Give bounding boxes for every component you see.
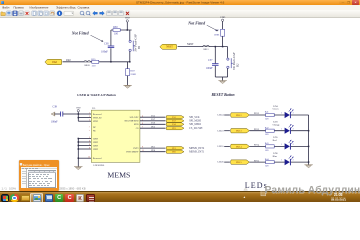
svg-text:—: — [342, 2, 345, 5]
svg-text:2835 x 1890 · 683 KB: 2835 x 1890 · 683 KB [60, 186, 86, 190]
svg-text:×: × [355, 1, 357, 5]
svg-text:Файл: Файл [2, 6, 10, 10]
svg-text:❐: ❐ [347, 1, 350, 5]
svg-text:Изображение: Изображение [30, 6, 49, 10]
svg-text:Эффекты: Эффекты [56, 6, 70, 10]
svg-text:Правка: Правка [14, 6, 24, 10]
svg-text:Справка: Справка [78, 6, 90, 10]
svg-text:1 / 1 100%: 1 / 1 100% [2, 186, 17, 190]
svg-text:05.03.2014: 05.03.2014 [331, 197, 346, 201]
svg-text:Загрузка файлов - Орех: Загрузка файлов - Орех [23, 164, 51, 167]
svg-text:Вид: Вид [70, 6, 76, 10]
svg-text:STM32F4-Discovery_Schematic.jp: STM32F4-Discovery_Schematic.jpg - FastSt… [136, 1, 225, 5]
